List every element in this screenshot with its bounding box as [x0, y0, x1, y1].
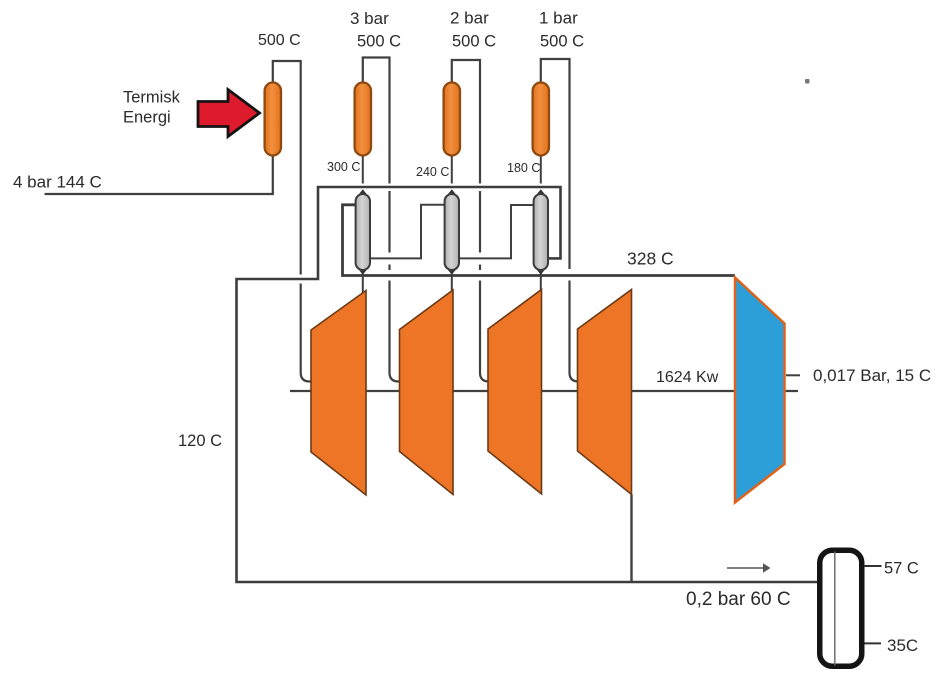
- tick: condenser 57 C: [864, 565, 882, 567]
- wire: boiler B1 outlet loop down to turbine T1 inlet: [273, 61, 301, 275]
- wire: exchanger E1 to E2 connector: [370, 205, 445, 259]
- svg-text:180 C: 180 C: [507, 161, 540, 175]
- heat exchanger E3 (gray capsule): [534, 194, 548, 270]
- flow arrow above 0,2 bar line: [727, 567, 764, 569]
- svg-text:300 C: 300 C: [327, 160, 360, 174]
- red arrow: Termisk Energi input: [198, 90, 260, 137]
- boiler B1 (orange capsule): [265, 83, 281, 156]
- wire: reheater B2 loop down to turbine T2 inlet (with crossing gaps): [363, 58, 390, 184]
- condenser C1 (thick rounded rect): [820, 550, 862, 666]
- reheater B4 (orange capsule): [533, 83, 549, 156]
- wire: 4 bar feed line into boiler B1: [45, 156, 273, 195]
- turbine T3 (orange trapezoid): [488, 290, 542, 495]
- heat exchanger E2 tip top: [448, 189, 456, 199]
- svg-text:0,017 Bar, 15 C: 0,017 Bar, 15 C: [813, 366, 931, 385]
- svg-text:240 C: 240 C: [416, 165, 449, 179]
- wire: drain B3 through E2 down to turbine T2: [451, 156, 453, 184]
- wire: exchanger E2 to E3 connector: [459, 205, 535, 258]
- heat exchanger E2 tip bottom: [448, 265, 456, 275]
- heat exchanger E1 tip top: [359, 189, 367, 199]
- heat exchanger E2 (gray capsule): [445, 194, 459, 270]
- svg-text:2 bar: 2 bar: [450, 9, 489, 28]
- turbine T4 (orange trapezoid): [578, 290, 632, 495]
- svg-text:57 C: 57 C: [884, 560, 919, 578]
- LP turbine T5 (blue trapezoid with orange border): [735, 278, 785, 503]
- svg-text:500 C: 500 C: [540, 33, 584, 51]
- heat exchanger E1 tip bottom: [359, 265, 367, 275]
- svg-text:1624 Kw: 1624 Kw: [656, 369, 719, 386]
- svg-text:4 bar 144 C: 4 bar 144 C: [13, 172, 102, 191]
- condenser internal tube line: [834, 552, 836, 666]
- wire: condensate return loop (exchanger E3 out, top line, left 120 C leg, bottom line to condenser): [237, 187, 818, 582]
- svg-text:Termisk: Termisk: [123, 89, 181, 107]
- wire: drain B2 through E1 down to turbine T1: [362, 156, 364, 184]
- wire: reheater B3 loop down to turbine T3 inlet (with crossing gaps): [452, 60, 480, 184]
- svg-text:Energi: Energi: [123, 109, 171, 127]
- svg-text:500 C: 500 C: [258, 32, 301, 49]
- svg-text:1 bar: 1 bar: [539, 9, 578, 28]
- tick: 0,017 bar outlet: [786, 374, 800, 376]
- stray dot artifact: [805, 79, 810, 84]
- reheater B3 (orange capsule): [444, 83, 460, 156]
- wire: reheater B4 loop down to turbine T4 inlet (with crossing gap): [541, 59, 570, 269]
- svg-text:35C: 35C: [887, 636, 918, 655]
- tick: condenser 35 C: [865, 642, 882, 644]
- svg-text:328 C: 328 C: [627, 249, 674, 269]
- turbine T2 (orange trapezoid): [400, 290, 454, 495]
- turbine T1 (orange trapezoid): [311, 291, 366, 496]
- svg-text:120 C: 120 C: [178, 432, 222, 450]
- svg-text:3 bar: 3 bar: [350, 9, 389, 28]
- heat exchanger E1 (gray capsule): [356, 194, 370, 270]
- wire: drain B4 through E3 down to turbine T3: [540, 156, 542, 184]
- heat exchanger E3 tip bottom: [537, 265, 545, 275]
- heat exchanger E3 tip top: [537, 189, 545, 199]
- wire: turbine shaft line: [290, 390, 798, 392]
- wire: turbine T4 exhaust down to bottom line: [630, 495, 632, 583]
- svg-text:500 C: 500 C: [357, 33, 401, 51]
- svg-text:500 C: 500 C: [452, 33, 496, 51]
- reheater B2 (orange capsule): [355, 83, 371, 156]
- svg-text:0,2 bar 60 C: 0,2 bar 60 C: [686, 589, 791, 610]
- wire: 328 C steam line feeding LP turbine: [343, 205, 736, 276]
